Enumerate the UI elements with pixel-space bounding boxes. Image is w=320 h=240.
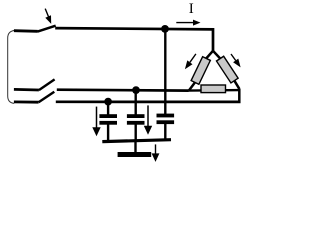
wire from phase A node down to C3 [164,29,166,115]
resistor R3 (bottom) [201,85,226,93]
node on phase B (junction dot) [132,86,140,94]
capacitor C3 [157,114,175,141]
switch S1 actuation arrow [45,9,51,24]
node on phase A (junction dot) [161,25,169,33]
phase B wire (middle bus to delta bottom-left) [57,88,189,92]
current arrow at C2 [144,105,152,134]
collector bus wire [102,140,171,142]
capacitor C1 [99,114,117,142]
switch S3 (bottom phase) [14,92,54,103]
resistor R1 (left slanted) [191,57,210,85]
current arrow at R1 [185,54,196,69]
wire from phase C node down to C1 [107,102,109,115]
svg-text:I: I [189,1,194,17]
wire from phase B node down to C2 [134,90,136,115]
delta bottom-right corner drop wire [238,89,241,103]
current arrow at ground [152,144,160,162]
delta right side wire [213,51,239,89]
ground bar (earth) [118,152,152,157]
switch S1 (top phase) [14,26,56,32]
node on phase C (junction dot) [104,98,112,106]
phase C wire (bottom bus) [56,100,241,103]
current arrow I [176,20,200,26]
resistor R2 (right slanted) [216,56,238,83]
phase A wire (top, to delta apex) [55,28,213,51]
delta bottom side wire [189,89,241,92]
capacitor C2 [127,114,145,141]
ground stem wire [134,141,136,153]
delta left side wire [189,51,213,91]
switch S2 (middle phase) [14,79,55,90]
source bracket [8,30,15,103]
current arrow at R2 [231,54,241,67]
current arrow at C1 [92,107,100,137]
